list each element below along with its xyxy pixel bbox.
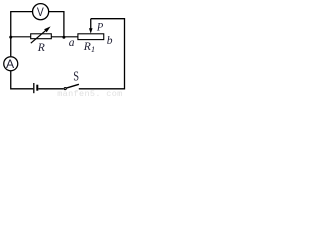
wire: row to resistor R: [11, 36, 31, 38]
rheostat R1 body: [78, 34, 104, 40]
wire: voltmeter right to corner, down to node: [49, 12, 64, 37]
wire: top wire and left rail down to ammeter: [11, 12, 33, 57]
switch lever: [66, 84, 79, 88]
arrow of variable resistor R: [31, 30, 46, 43]
svg-text:P: P: [96, 21, 103, 33]
svg-text:manfen5. com: manfen5. com: [57, 89, 122, 96]
node junction on left rail: [9, 36, 12, 39]
wire: R to node a to rheostat R1: [51, 36, 78, 38]
svg-text:A: A: [6, 57, 15, 71]
battery short thick plate: [36, 85, 38, 91]
voltmeter V circle: [33, 4, 49, 20]
svg-text:R: R: [37, 41, 45, 54]
node junction below voltmeter branch: [62, 36, 65, 39]
svg-text:a: a: [69, 37, 75, 49]
ammeter A circle: [4, 57, 18, 71]
battery long plate: [33, 83, 35, 93]
svg-text:V: V: [37, 5, 45, 19]
wire: ammeter to bottom-left corner to battery: [11, 71, 33, 89]
resistor R body: [31, 34, 52, 39]
wire: slider corner to right rail, down, bottom to switch: [79, 19, 125, 89]
wire: battery to switch contact: [38, 88, 63, 90]
switch contact circle: [64, 88, 66, 90]
svg-text:b: b: [107, 35, 113, 47]
slider P stem: [90, 19, 92, 29]
slider P arrowhead: [89, 28, 93, 33]
svg-text:S: S: [73, 69, 79, 84]
